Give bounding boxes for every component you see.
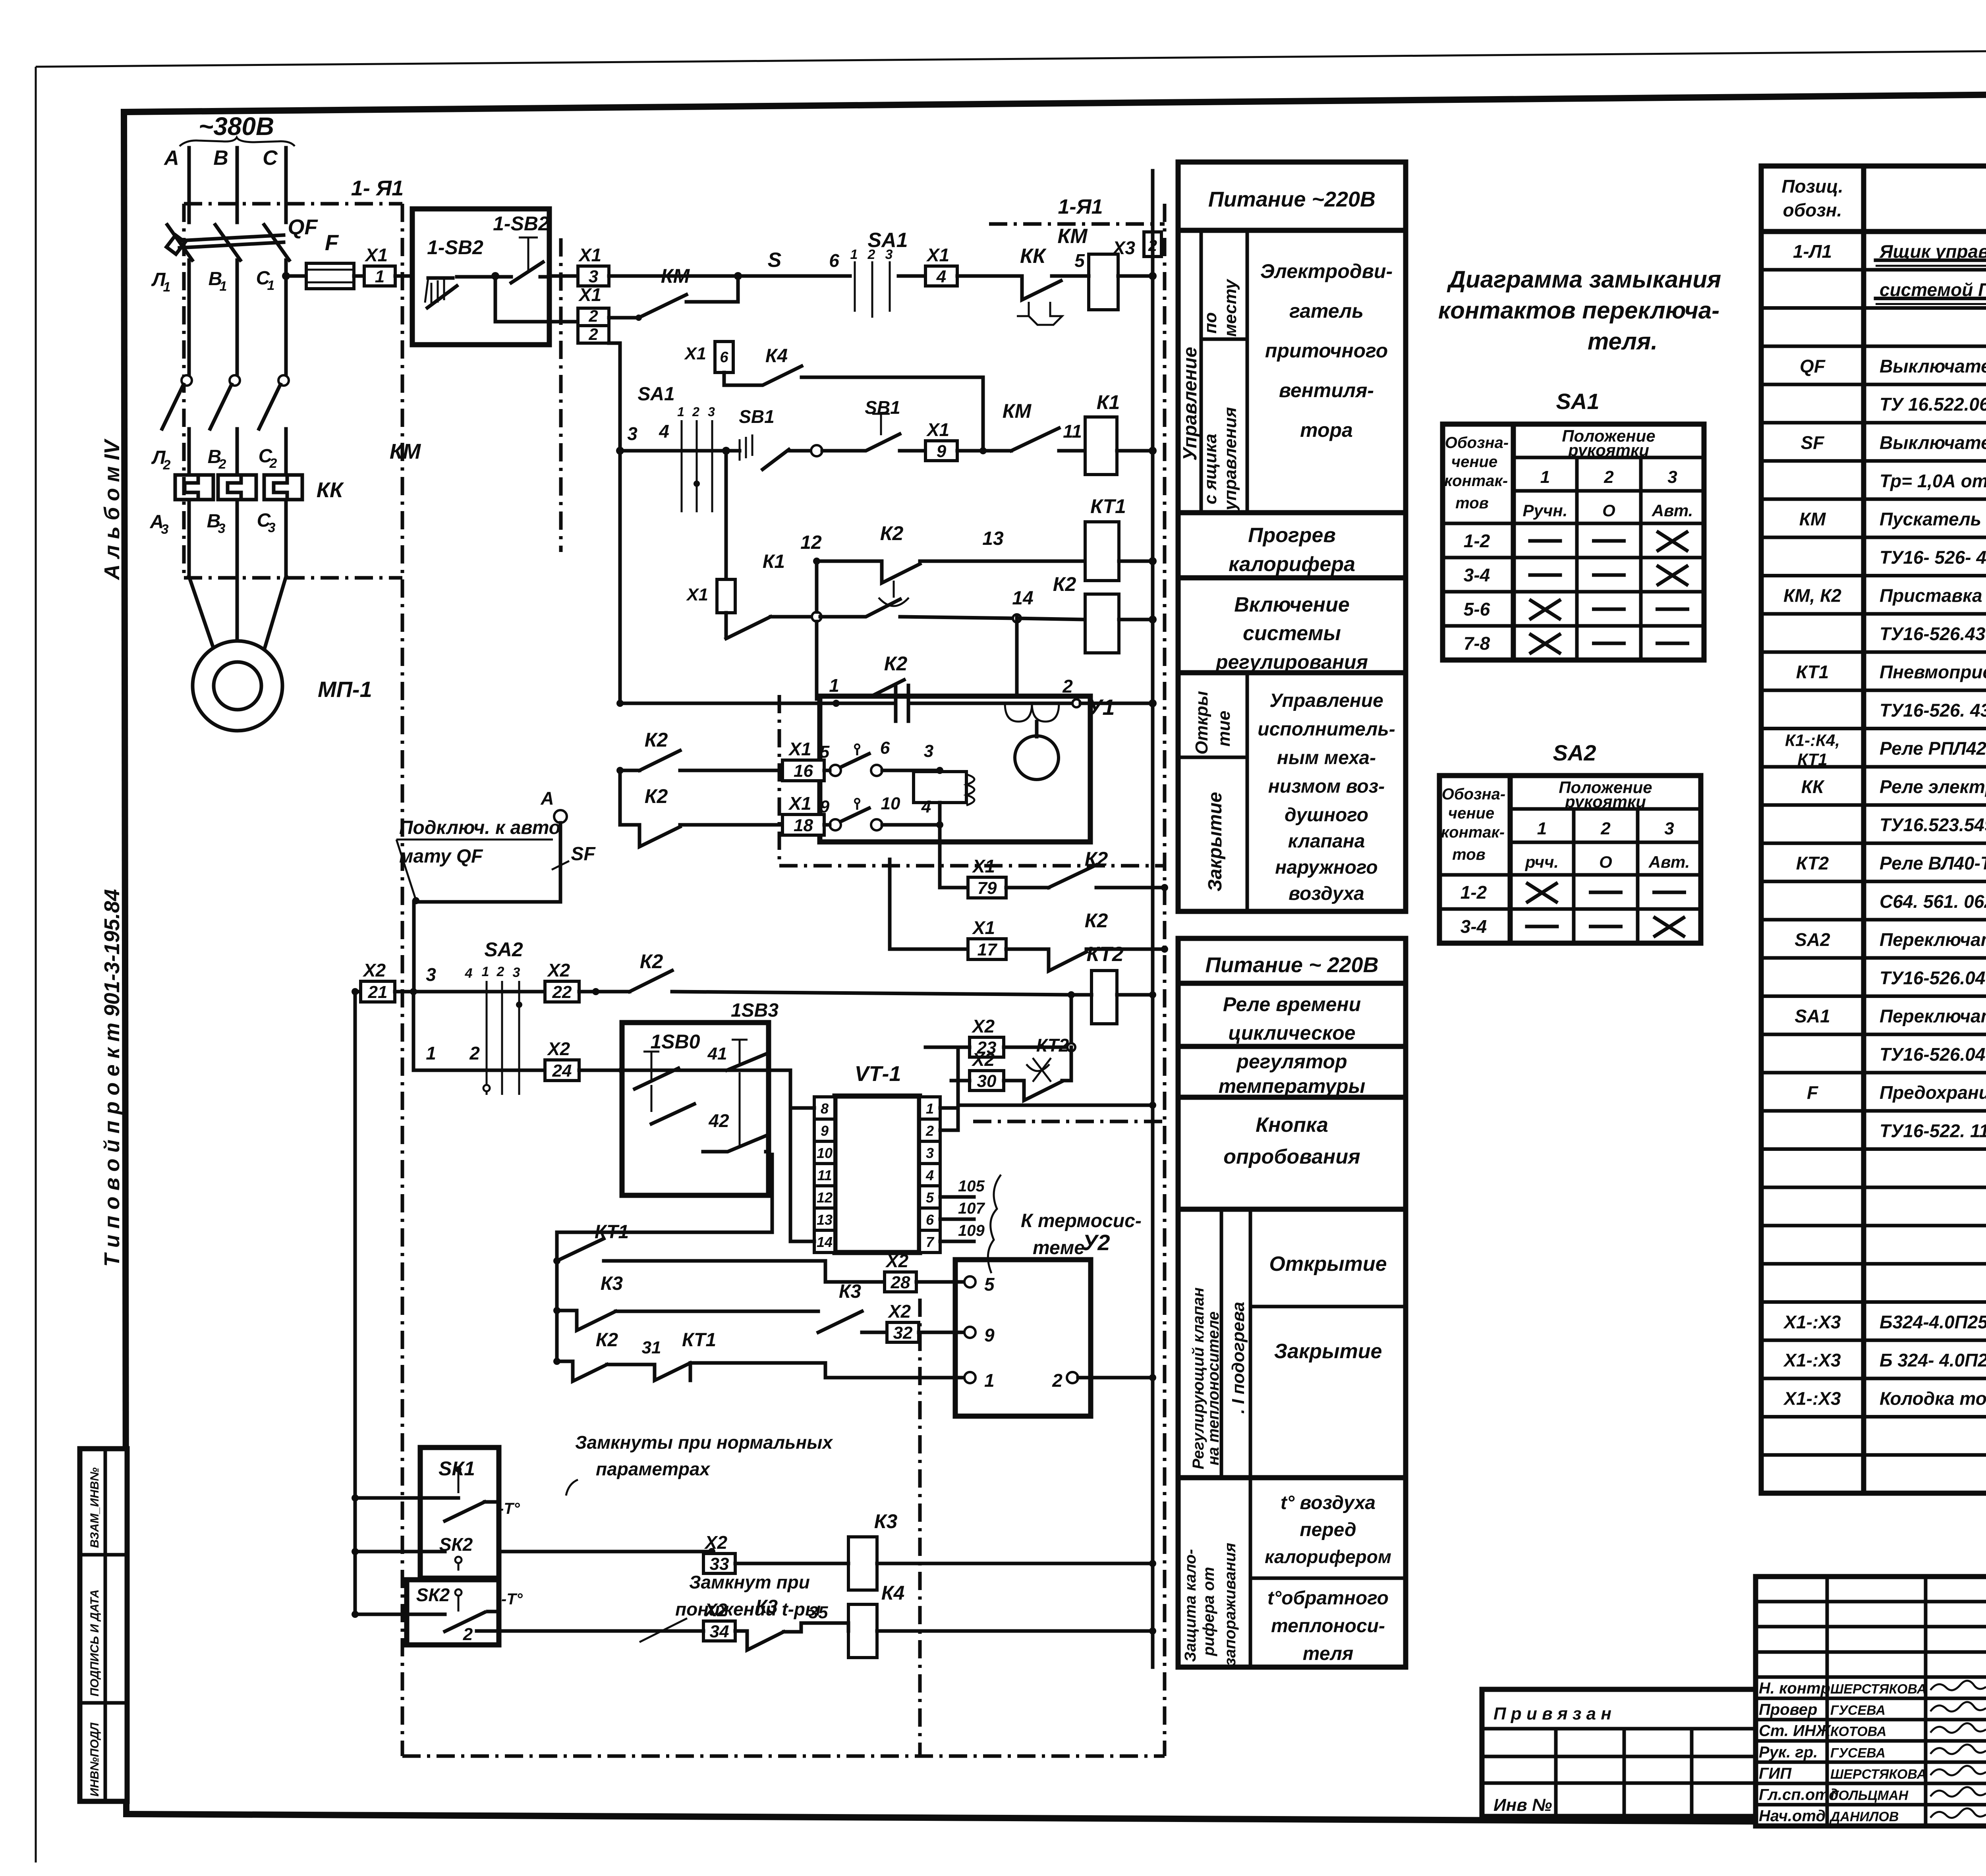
svg-text:18: 18 xyxy=(794,816,813,835)
svg-text:КК: КК xyxy=(317,478,344,502)
VT-1 right terminals 1-7 xyxy=(920,1097,940,1253)
table SА1 row 3-4 xyxy=(1464,565,1687,585)
svg-text:2: 2 xyxy=(1052,1370,1063,1391)
svg-text:ДАНИЛОВ: ДАНИЛОВ xyxy=(1829,1809,1899,1824)
svg-text:месту: месту xyxy=(1221,278,1240,337)
terminal X1:18 xyxy=(782,793,830,835)
svg-text:приточного: приточного xyxy=(1265,340,1388,362)
svg-text:К1: К1 xyxy=(763,551,785,572)
riser from node 4 down / X1:19 row xyxy=(940,825,968,888)
svg-text:X2: X2 xyxy=(547,960,570,980)
svg-text:X1: X1 xyxy=(578,284,601,305)
table SА2 header text xyxy=(1441,778,1690,871)
svg-text:1-SВ2: 1-SВ2 xyxy=(493,212,549,235)
relay coil K1 xyxy=(1085,391,1157,475)
svg-text:ШЕРСТЯКОВА: ШЕРСТЯКОВА xyxy=(1830,1767,1926,1782)
wire to U2 terminal 1 xyxy=(825,1363,995,1391)
svg-text:1: 1 xyxy=(829,675,839,696)
terminal X3:2 on riser xyxy=(1112,232,1161,258)
svg-text:X1: X1 xyxy=(788,793,811,814)
label ~380V with brace xyxy=(180,112,295,146)
table row 16: ТУ16.523.549-82 xyxy=(1761,814,1986,843)
svg-text:-Т°: -Т° xyxy=(501,1590,523,1608)
table row 31: Х1-:Х3 xyxy=(1761,1388,1986,1417)
svg-text:34: 34 xyxy=(710,1622,729,1641)
actuator U1 box xyxy=(820,695,1115,842)
U2 terminal 2 to bus xyxy=(1052,1370,1156,1391)
svg-text:КМ: КМ xyxy=(1057,225,1088,248)
svg-text:К1: К1 xyxy=(1097,391,1120,413)
svg-text:7: 7 xyxy=(926,1234,935,1250)
svg-text:ТУ16-526.047-74: ТУ16-526.047-74 xyxy=(1880,1044,1986,1065)
pushbutton 1-SB2 (NC) xyxy=(495,237,549,283)
node 2 / junction to bus xyxy=(1062,676,1157,707)
function column 1 frame xyxy=(1178,162,1406,911)
svg-text:обозн.: обозн. xyxy=(1783,200,1842,220)
table row 20: ТУ16-526.047- 74 xyxy=(1761,967,1986,996)
wire X1:1 to 1-SB2 box xyxy=(395,274,429,278)
svg-text:Открытие: Открытие xyxy=(1269,1253,1387,1276)
svg-text:2: 2 xyxy=(463,1625,473,1644)
svg-text:3: 3 xyxy=(1664,819,1674,838)
svg-text:регулирования: регулирования xyxy=(1215,651,1368,673)
svg-text:t°обратного: t°обратного xyxy=(1267,1588,1389,1609)
table row 18: С64. 561. 062 ТО xyxy=(1761,891,1986,920)
circuit breaker QF xyxy=(166,215,319,377)
table row 27: empty xyxy=(1761,1262,1986,1266)
table SА1 header text xyxy=(1444,427,1693,520)
svg-text:Закрытие: Закрытие xyxy=(1274,1340,1382,1363)
svg-text:Выключатель АЕ 2033-100У3Тр-20: Выключатель АЕ 2033-100У3Тр-20А, ~380В xyxy=(1880,356,1986,376)
motor MP-1 xyxy=(193,641,372,731)
row K2/X1:16 to contact 5 xyxy=(616,729,782,774)
svg-text:Гл.сп.отд: Гл.сп.отд xyxy=(1759,1786,1839,1803)
cell: Питание ~220В (2) xyxy=(1178,953,1406,983)
svg-text:рчч.: рчч. xyxy=(1525,853,1559,871)
svg-text:2: 2 xyxy=(269,456,277,471)
privjazan table xyxy=(1482,1689,1756,1816)
svg-text:перед: перед xyxy=(1300,1519,1356,1540)
svg-text:2: 2 xyxy=(588,307,598,325)
terminal X1:6 on riser xyxy=(684,342,733,385)
svg-text:Реле времени: Реле времени xyxy=(1223,993,1361,1015)
svg-text:ГУСЕВА: ГУСЕВА xyxy=(1830,1703,1886,1718)
cell: Закрытие (2) xyxy=(1178,1340,1406,1478)
svg-text:3: 3 xyxy=(426,964,436,985)
svg-text:П р и в я з а н: П р и в я з а н xyxy=(1493,1704,1611,1724)
svg-text:ТУ16- 526- 437- 78: ТУ16- 526- 437- 78 xyxy=(1880,547,1986,567)
svg-text:1: 1 xyxy=(163,280,171,295)
wire X1:2 to KM aux xyxy=(609,315,642,321)
junction row1/bus xyxy=(1149,272,1157,280)
terminal X2:24 xyxy=(545,1038,626,1081)
svg-text:Колодка торцевая КТ5У ТУ16-: Колодка торцевая КТ5У ТУ16-526.462- 79 xyxy=(1880,1388,1986,1409)
wire X1:3 long run xyxy=(609,249,850,276)
svg-text:13: 13 xyxy=(817,1212,833,1228)
svg-text:У1: У1 xyxy=(1087,695,1115,720)
svg-text:X1: X1 xyxy=(578,245,601,265)
table SА1 grid xyxy=(1443,424,1704,660)
VT-1 left terminals 8-14 xyxy=(814,1097,835,1253)
svg-text:Н. контр: Н. контр xyxy=(1759,1680,1830,1697)
wire row K2 (y=1553) with KT1 delayed contact xyxy=(0,0,0,0)
button box 1SB0/1SB3 xyxy=(622,1000,779,1195)
svg-text:6: 6 xyxy=(720,349,728,366)
svg-text:3: 3 xyxy=(926,1145,934,1161)
pushbutton SB1 (NC stop) xyxy=(822,397,925,451)
node labels A3 B3 C3 xyxy=(150,510,276,537)
svg-text:ГИП: ГИП xyxy=(1759,1765,1792,1782)
svg-text:41: 41 xyxy=(707,1044,727,1063)
table row 1: 1-Л1 xyxy=(1761,241,1986,270)
svg-text:по: по xyxy=(1201,312,1220,334)
rail to SK1 (x=894) xyxy=(352,992,359,1614)
enclosure dash-dot (left of U2) xyxy=(918,1299,922,1756)
table row 3: empty xyxy=(1761,344,1986,348)
contact circle node xyxy=(811,445,822,456)
terminal X1:2 / X1:2 (double) xyxy=(578,284,609,344)
note: zamknuty pri normalnyh parametrah xyxy=(566,1432,833,1496)
thermostat SK2 box xyxy=(352,1580,703,1645)
table SА1 row 7-8 xyxy=(1464,633,1688,654)
svg-text:2: 2 xyxy=(1603,467,1614,487)
svg-text:ТУ16-526.437- 78: ТУ16-526.437- 78 xyxy=(1880,623,1986,644)
svg-text:регулятор: регулятор xyxy=(1236,1050,1347,1073)
cell: Реле времени циклическое xyxy=(1178,993,1406,1046)
svg-text:Включение: Включение xyxy=(1234,593,1350,616)
svg-text:Приставка контактная ПКЛ2204: Приставка контактная ПКЛ2204 xyxy=(1880,585,1986,606)
table SА2 caption xyxy=(1553,740,1596,765)
dash-dot boundary segment xyxy=(973,1120,1165,1123)
svg-text:температуры: температуры xyxy=(1219,1075,1366,1097)
svg-text:системы: системы xyxy=(1243,622,1341,645)
svg-text:К2: К2 xyxy=(880,522,904,544)
svg-text:Реле РПЛ4220м4 ~220В ТУ16-523: Реле РПЛ4220м4 ~220В ТУ16-523.554- 78 xyxy=(1880,738,1986,759)
svg-text:КК: КК xyxy=(1801,776,1825,797)
svg-text:У2: У2 xyxy=(1082,1230,1110,1255)
svg-text:Кнопка: Кнопка xyxy=(1256,1114,1328,1137)
cell: Питание ~220В xyxy=(1178,187,1406,230)
svg-text:X2: X2 xyxy=(362,960,386,980)
svg-text:наружного: наружного xyxy=(1275,857,1377,878)
wires to motor xyxy=(189,500,286,651)
svg-text:12: 12 xyxy=(800,532,822,553)
button 42 contact xyxy=(651,1085,729,1131)
terminal X2:23 xyxy=(925,1016,1075,1058)
svg-text:14: 14 xyxy=(1012,588,1033,609)
note: Podkljuch k avtomatu QF xyxy=(396,817,560,904)
svg-text:1SВ3: 1SВ3 xyxy=(731,1000,779,1021)
svg-text:Выключатель А63-МУ3 U ~380В: Выключатель А63-МУ3 U ~380В xyxy=(1880,432,1986,453)
table SА2 row 1-2 xyxy=(1461,882,1685,903)
svg-text:13: 13 xyxy=(982,528,1004,549)
VT-1 wiring left side xyxy=(622,1070,814,1241)
svg-text:рукоятки: рукоятки xyxy=(1568,441,1649,459)
riser KT2 aux xyxy=(1070,995,1073,1047)
svg-text:низмом воз-: низмом воз- xyxy=(1268,776,1385,797)
svg-text:КОТОВА: КОТОВА xyxy=(1830,1724,1886,1739)
svg-text:Х1-:Х3: Х1-:Х3 xyxy=(1783,1388,1841,1409)
svg-text:ТУ16-526. 437- 78: ТУ16-526. 437- 78 xyxy=(1880,700,1986,720)
table row 25: empty xyxy=(1761,1185,1986,1189)
switch SA2 group xyxy=(461,938,545,1095)
svg-text:4: 4 xyxy=(925,1167,934,1183)
svg-text:Откры: Откры xyxy=(1192,691,1211,755)
contact KK (NC thermal) xyxy=(1006,245,1085,325)
enclosure 1-Ja1 (power box, dash-dot) xyxy=(184,176,404,1756)
svg-text:1: 1 xyxy=(426,1043,436,1063)
svg-text:чение: чение xyxy=(1448,805,1494,822)
svg-text:X3: X3 xyxy=(1112,237,1136,258)
svg-text:SВ1: SВ1 xyxy=(739,406,774,427)
svg-text:3: 3 xyxy=(218,521,226,536)
wire fuse to X1:1 xyxy=(354,274,364,278)
terminal X1:16 xyxy=(782,739,830,781)
table row 12: КТ1 xyxy=(1761,662,1986,690)
svg-text:1-Я1: 1-Я1 xyxy=(1058,195,1103,218)
svg-text:2: 2 xyxy=(218,457,226,472)
svg-text:Прогрев: Прогрев xyxy=(1248,524,1336,547)
button 1SB0 (NC) xyxy=(635,1052,727,1089)
component table frame xyxy=(1761,166,1986,1493)
wire to row4 junction xyxy=(771,612,821,621)
svg-text:Рук. гр.: Рук. гр. xyxy=(1759,1743,1818,1761)
svg-text:F: F xyxy=(325,230,339,255)
terminal X1:9 xyxy=(925,419,957,461)
svg-text:Управление: Управление xyxy=(1180,347,1201,461)
terminal X2:28 xyxy=(885,1251,995,1295)
svg-text:2: 2 xyxy=(1600,819,1611,838)
svg-text:1- Я1: 1- Я1 xyxy=(351,176,404,200)
svg-text:2: 2 xyxy=(588,325,598,344)
svg-text:ШЕРСТЯКОВА: ШЕРСТЯКОВА xyxy=(1830,1682,1926,1697)
svg-text:О: О xyxy=(1599,853,1612,871)
row K2/X1:18 to contact 9 xyxy=(620,770,782,847)
U1 internal connections xyxy=(940,722,1037,825)
svg-text:ТУ 16.522.064- 75: ТУ 16.522.064- 75 xyxy=(1880,394,1986,415)
svg-text:X1: X1 xyxy=(926,245,949,265)
svg-text:КМ: КМ xyxy=(390,440,421,463)
svg-text:X2: X2 xyxy=(885,1251,909,1271)
contactor KM main contacts xyxy=(162,375,421,473)
svg-text:тора: тора xyxy=(1300,419,1353,441)
svg-text:7-8: 7-8 xyxy=(1464,633,1490,654)
wire row X2:21 (y=2497) xyxy=(395,964,461,995)
svg-text:Б 324- 4.0П25- В/В У3-10 ТУ1: Б 324- 4.0П25- В/В У3-10 ТУ16-526.463- 7… xyxy=(1880,1350,1986,1370)
svg-text:31: 31 xyxy=(642,1338,661,1357)
svg-text:22: 22 xyxy=(552,982,572,1002)
cell: Защита калорифера от запораживания (rotated) xyxy=(1182,1478,1250,1667)
svg-text:Позиц.: Позиц. xyxy=(1781,176,1843,197)
svg-text:А: А xyxy=(163,147,179,170)
terminal X2:34 xyxy=(703,1600,735,1641)
svg-text:КМ: КМ xyxy=(1799,509,1826,529)
cell: Электродвигатель приточного вентилятора xyxy=(1178,260,1406,513)
svg-text:К4: К4 xyxy=(765,345,788,367)
svg-text:калорифером: калорифером xyxy=(1265,1546,1391,1567)
table row 19: SА2 xyxy=(1761,929,1986,958)
wire X1:4 to KK xyxy=(957,274,1006,278)
svg-text:КМ: КМ xyxy=(661,265,690,287)
svg-text:КТ1: КТ1 xyxy=(1796,662,1829,682)
terminal X2:30 xyxy=(951,1049,1004,1091)
svg-text:Питание ~ 220В: Питание ~ 220В xyxy=(1205,953,1378,977)
svg-text:Провер: Провер xyxy=(1759,1701,1817,1718)
svg-text:запораживания: запораживания xyxy=(1221,1543,1239,1666)
svg-text:2: 2 xyxy=(692,405,699,419)
svg-text:1: 1 xyxy=(677,405,684,419)
svg-text:F: F xyxy=(1807,1082,1819,1103)
U1 enclosure dash-dot xyxy=(779,695,1165,866)
wire row K1 (y=1135) xyxy=(620,421,675,451)
cell: Кнопка опробования xyxy=(1178,1114,1406,1209)
cell: Включение системы регулирования xyxy=(1178,593,1406,673)
svg-text:X2: X2 xyxy=(971,1016,995,1036)
table row 29: Х1-:Х3 xyxy=(1761,1312,1986,1340)
svg-text:Переключатель ПКУ3-12С-У3 схе: Переключатель ПКУ3-12С-У3 схема 0102 xyxy=(1880,929,1986,950)
VT-1 wiring right side (1,2) xyxy=(940,1047,970,1130)
svg-text:X1: X1 xyxy=(788,739,811,759)
terminal X2:21 xyxy=(352,960,395,1002)
svg-text:SF: SF xyxy=(1801,432,1825,453)
cell: Открытие (rotated) xyxy=(1178,673,1247,911)
svg-text:2: 2 xyxy=(469,1043,480,1063)
relay coil K4 xyxy=(848,1582,1156,1658)
table row 14: К1-:К4,|КТ1 xyxy=(1761,731,1986,769)
table row 32: empty xyxy=(1761,1453,1986,1457)
svg-text:t° воздуха: t° воздуха xyxy=(1281,1492,1376,1513)
svg-text:Диаграмма замыкания: Диаграмма замыкания xyxy=(1447,266,1721,293)
junction row3 xyxy=(722,447,730,455)
svg-text:16: 16 xyxy=(794,761,813,781)
junction on row1 xyxy=(734,272,742,280)
svg-text:8: 8 xyxy=(821,1100,829,1117)
svg-text:14: 14 xyxy=(817,1234,833,1250)
svg-text:О: О xyxy=(1602,501,1615,520)
svg-text:Обозна-: Обозна- xyxy=(1445,434,1509,452)
svg-text:1: 1 xyxy=(984,1370,995,1391)
table row 23: F xyxy=(1761,1082,1986,1111)
relay block in U1 xyxy=(914,772,974,805)
svg-text:ПОДПИСЬ И ДАТА: ПОДПИСЬ И ДАТА xyxy=(88,1589,101,1697)
wire SA1 to X1:4 xyxy=(898,274,925,278)
svg-text:ТУ16.523.549-82: ТУ16.523.549-82 xyxy=(1880,814,1986,835)
svg-text:2: 2 xyxy=(1062,676,1073,697)
svg-text:клапана: клапана xyxy=(1288,831,1365,852)
svg-text:Авт.: Авт. xyxy=(1652,501,1693,520)
svg-text:. I подогрева: . I подогрева xyxy=(1229,1302,1248,1414)
svg-text:контак-: контак- xyxy=(1444,472,1508,490)
svg-text:109: 109 xyxy=(958,1222,985,1239)
svg-text:К2: К2 xyxy=(1053,573,1076,595)
svg-text:5: 5 xyxy=(926,1189,934,1206)
title block frame xyxy=(1756,1577,1986,1826)
svg-text:1: 1 xyxy=(850,247,858,262)
pushbutton station 1-SB2 (box) xyxy=(412,209,549,345)
contact K1 (NO) xyxy=(726,551,785,639)
svg-text:теплоноси-: теплоноси- xyxy=(1271,1615,1385,1637)
component table header xyxy=(1781,176,1986,220)
function column 2 frame xyxy=(1178,938,1406,1667)
svg-text:Питание ~220В: Питание ~220В xyxy=(1208,187,1376,211)
svg-text:SА1: SА1 xyxy=(1795,1006,1830,1027)
svg-text:9: 9 xyxy=(984,1325,995,1345)
svg-text:1: 1 xyxy=(926,1100,934,1117)
table row 6: SF xyxy=(1761,432,1986,461)
svg-text:11: 11 xyxy=(1063,421,1082,442)
table SА1 caption xyxy=(1556,389,1600,414)
svg-text:КМ: КМ xyxy=(1003,400,1032,422)
svg-text:X1: X1 xyxy=(686,585,708,604)
pushbutton 1-SB2 (NO, mushroom) xyxy=(425,277,495,308)
cell: Управление исполнительным механизмом ... xyxy=(1258,690,1395,904)
svg-text:1: 1 xyxy=(220,279,227,294)
svg-text:Реле ВЛ40-ТУ4 U~ 220В ВВ 10-: Реле ВЛ40-ТУ4 U~ 220В ВВ 10-:100с xyxy=(1880,853,1986,874)
svg-text:21: 21 xyxy=(368,982,388,1002)
note: zamknut pri ponizhenii t-ry xyxy=(639,1572,821,1642)
switch SA1 group 2 xyxy=(638,384,726,512)
svg-text:С64. 561. 062 ТО: С64. 561. 062 ТО xyxy=(1880,891,1986,912)
svg-text:SА1: SА1 xyxy=(1556,389,1600,414)
svg-text:4: 4 xyxy=(936,267,946,286)
table row 24: ТУ16-522. 112- 74 xyxy=(1761,1120,1986,1149)
cell: по месту (rotated) xyxy=(1201,230,1247,513)
svg-text:калорифера: калорифера xyxy=(1229,553,1355,576)
svg-text:КК: КК xyxy=(1020,245,1047,268)
table SА1 row 1-2 xyxy=(1464,531,1687,551)
svg-text:К2: К2 xyxy=(640,950,663,973)
svg-text:теля.: теля. xyxy=(1588,328,1658,355)
svg-text:контак-: контак- xyxy=(1441,824,1505,841)
table row 8: КМ xyxy=(1761,509,1986,537)
svg-text:вентиля-: вентиля- xyxy=(1279,379,1374,401)
control bus (right vertical) xyxy=(1151,171,1155,1667)
svg-text:Тр= 1,0А отс 2,5 ТУ16-522.: Тр= 1,0А отс 2,5 ТУ16-522. 110-74 xyxy=(1880,471,1986,491)
svg-text:X1: X1 xyxy=(926,419,949,440)
svg-text:42: 42 xyxy=(708,1110,729,1131)
contact KT2 (X type, delayed) xyxy=(1004,1035,1071,1100)
svg-text:КМ, К2: КМ, К2 xyxy=(1783,585,1841,606)
svg-text:К3: К3 xyxy=(601,1273,623,1294)
svg-text:X2: X2 xyxy=(547,1038,570,1059)
svg-text:1: 1 xyxy=(1537,819,1547,838)
svg-text:гатель: гатель xyxy=(1289,300,1364,322)
svg-text:Защита кало-: Защита кало- xyxy=(1182,1549,1199,1662)
svg-text:параметрах: параметрах xyxy=(596,1459,711,1479)
svg-text:К4: К4 xyxy=(881,1582,905,1604)
svg-text:Пускатель ПМЛ210004 U~220В: Пускатель ПМЛ210004 U~220В xyxy=(1880,509,1986,529)
contact K3 (NC) row K4 xyxy=(735,1596,848,1650)
cell: Открытие (2) xyxy=(1250,1253,1406,1307)
table row 15: КК xyxy=(1761,776,1986,805)
node labels A2 B2 C2 xyxy=(151,446,277,473)
svg-text:КТ2: КТ2 xyxy=(1036,1035,1069,1056)
svg-text:12: 12 xyxy=(817,1189,833,1206)
svg-text:3: 3 xyxy=(513,965,520,980)
svg-text:А: А xyxy=(540,788,554,809)
table row 9: ТУ16- 526- 437- 78 xyxy=(1761,547,1986,575)
svg-text:К3: К3 xyxy=(874,1510,898,1532)
enclosure bottom boundary (dash-dot) xyxy=(402,1754,1165,1758)
svg-text:107: 107 xyxy=(958,1200,985,1217)
svg-text:2: 2 xyxy=(925,1123,934,1139)
node C1 junction xyxy=(282,272,290,280)
table row 10: КМ, К2 xyxy=(1761,585,1986,614)
cell: Закрытие (rotated) xyxy=(1205,792,1226,892)
svg-text:К2: К2 xyxy=(645,729,668,751)
wire C1 to fuse xyxy=(286,274,306,278)
svg-text:Х1-:Х3: Х1-:Х3 xyxy=(1783,1350,1841,1370)
